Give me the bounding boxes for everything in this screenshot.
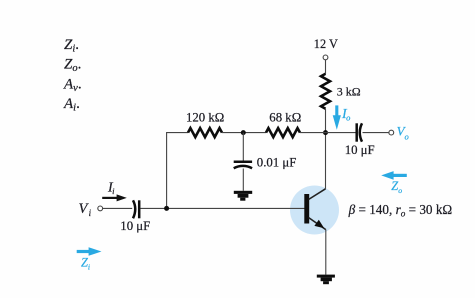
transistor Q1 emitter line xyxy=(309,218,326,230)
svg-text:120 kΩ: 120 kΩ xyxy=(186,110,224,124)
impedance arrow Zo (blue, left) xyxy=(381,171,407,180)
svg-text:10 μF: 10 μF xyxy=(120,219,150,233)
ground (emitter) xyxy=(317,275,335,285)
wire Vi terminal to C1 xyxy=(103,207,133,209)
svg-text:Av.: Av. xyxy=(63,77,82,95)
svg-text:10 μF: 10 μF xyxy=(345,143,375,157)
svg-text:Zi.: Zi. xyxy=(64,37,79,55)
wire R2 to collector node xyxy=(300,132,326,134)
wire R1 to midpoint node xyxy=(222,132,266,134)
node collector junction dot xyxy=(323,130,328,135)
transistor highlight circle xyxy=(290,186,339,235)
wire midpoint node down to C3 xyxy=(242,133,244,161)
wire left rail corner to R1 xyxy=(167,133,188,209)
svg-text:3 kΩ: 3 kΩ xyxy=(337,85,361,99)
node base junction dot xyxy=(164,206,169,211)
svg-text:β = 140, ro = 30 kΩ: β = 140, ro = 30 kΩ xyxy=(348,202,453,219)
wire collector node to output cap xyxy=(326,132,356,134)
supply terminal (open circle) xyxy=(323,55,328,60)
wire emitter to ground xyxy=(325,230,327,275)
transistor Q1 base bar xyxy=(304,194,309,224)
capacitor C3 0.01 uF (horizontal plates) xyxy=(234,162,252,168)
wire C1 to base junction xyxy=(141,207,305,209)
wire RC bottom to collector node xyxy=(325,109,327,189)
resistor R2 68 kOhm (horizontal zigzag) xyxy=(266,128,300,137)
svg-text:68 kΩ: 68 kΩ xyxy=(269,110,301,124)
terminal Vi (open circle) xyxy=(98,206,103,211)
ground (below C3) xyxy=(234,191,252,201)
wire supply to RC top xyxy=(325,60,327,74)
svg-text:Ai.: Ai. xyxy=(63,96,80,114)
impedance arrow Zi (blue, right) xyxy=(77,247,102,256)
capacitor C1 10 uF (input) xyxy=(133,200,139,218)
resistor RC 3 kOhm (vertical zigzag) xyxy=(321,74,330,109)
transistor Q1 emitter arrowhead xyxy=(314,220,324,229)
wire C2 to Vo terminal xyxy=(363,132,389,134)
svg-text:0.01 μF: 0.01 μF xyxy=(257,156,297,170)
svg-text:12 V: 12 V xyxy=(314,37,338,51)
transistor Q1 collector line xyxy=(309,189,326,200)
terminal Vo (open circle) xyxy=(389,130,394,135)
node midpoint junction dot xyxy=(241,130,246,135)
resistor R1 120 kOhm (horizontal zigzag) xyxy=(188,128,222,137)
current arrow Ii (black, right) xyxy=(102,194,127,201)
wire C3 to ground xyxy=(242,169,244,191)
capacitor C2 10 uF (output) xyxy=(357,123,362,141)
current arrow Io (blue, down) xyxy=(333,105,341,129)
